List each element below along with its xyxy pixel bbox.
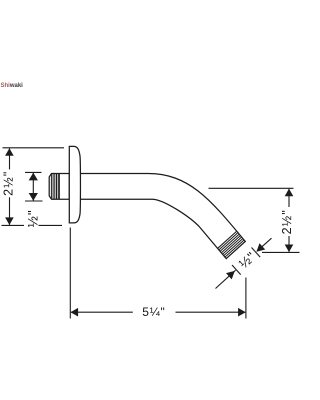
svg-text:½": ½" [25, 209, 40, 227]
svg-text:Shiwaki: Shiwaki [1, 83, 24, 89]
svg-text:2½": 2½" [1, 170, 15, 195]
svg-text:2½": 2½" [280, 209, 294, 234]
svg-text:5¼": 5¼" [142, 305, 165, 319]
